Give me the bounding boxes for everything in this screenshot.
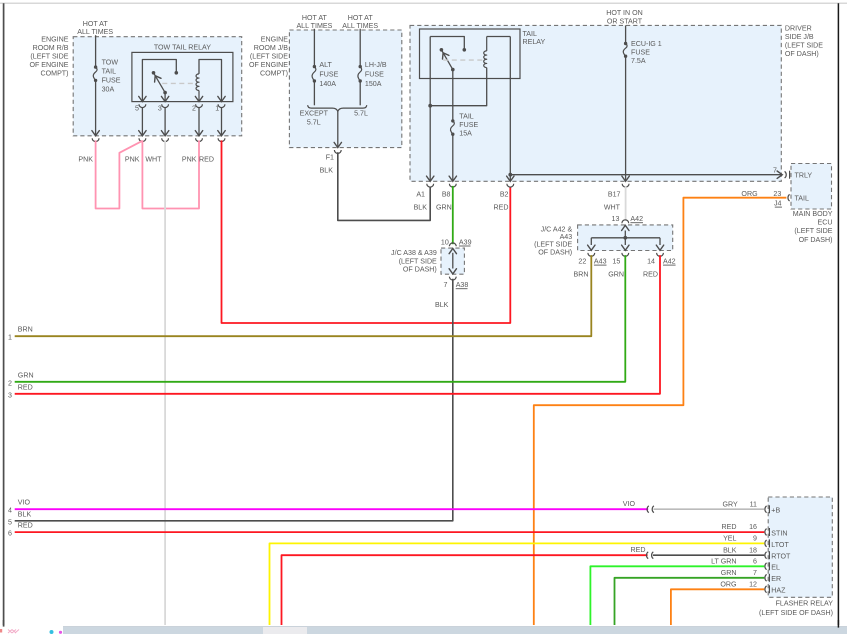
wire PNK relay pin 5 to pin 2 xyxy=(142,140,199,208)
svg-text:A42: A42 xyxy=(630,215,643,223)
svg-text:ENGINE: ENGINE xyxy=(261,35,288,43)
svg-text:ENGINE: ENGINE xyxy=(41,35,68,43)
svg-text:FUSE: FUSE xyxy=(631,48,650,56)
svg-text:1: 1 xyxy=(8,334,12,342)
svg-text:150A: 150A xyxy=(365,80,382,88)
svg-text:PNK: PNK xyxy=(78,156,93,164)
tow relay switch arm xyxy=(154,73,166,93)
connector B2 at J/B edge xyxy=(507,184,514,187)
svg-text:J4: J4 xyxy=(774,199,782,207)
svg-text:FUSE: FUSE xyxy=(365,71,384,79)
svg-text:RTOT: RTOT xyxy=(771,553,791,561)
wire GRY to +B xyxy=(654,508,765,510)
svg-text:LH-J/B: LH-J/B xyxy=(365,61,387,69)
wire GRN B8 to junction connector A39 xyxy=(452,186,454,244)
fuse ALT FUSE 140A xyxy=(313,65,316,68)
svg-text:WHT: WHT xyxy=(145,156,162,164)
svg-text:TAIL: TAIL xyxy=(459,113,474,121)
svg-text:OF DASH): OF DASH) xyxy=(799,236,833,244)
svg-text:GRY: GRY xyxy=(722,501,738,509)
svg-text:OF DASH): OF DASH) xyxy=(403,266,437,274)
svg-text:TAIL: TAIL xyxy=(102,68,117,76)
svg-text:15: 15 xyxy=(612,257,620,265)
wire RED pin 14 to left edge (wire 3) xyxy=(15,255,660,394)
tow relay pin 3 xyxy=(161,96,168,101)
svg-text:YEL: YEL xyxy=(723,535,736,543)
frame line ends over strip xyxy=(3,620,5,627)
connector at R/B edge pin 5 xyxy=(139,138,146,141)
tow relay coil xyxy=(198,91,200,102)
wire GRN to ER xyxy=(615,578,765,628)
svg-text:ER: ER xyxy=(771,575,781,583)
connector 13 A42 (top) xyxy=(622,220,629,223)
svg-text:B8: B8 xyxy=(442,190,451,198)
svg-text:RED: RED xyxy=(18,522,33,530)
wire RED to RTOT connector xyxy=(282,555,648,627)
junction dot on bus xyxy=(623,236,627,240)
svg-text:BLK: BLK xyxy=(320,167,334,175)
connector 14 A42 xyxy=(657,253,664,256)
wire ALT FUSE output to brace xyxy=(313,81,315,105)
svg-text:11: 11 xyxy=(750,501,757,509)
svg-text:DRIVER: DRIVER xyxy=(785,24,812,32)
svg-text:A43: A43 xyxy=(594,257,607,265)
junction on A1 line xyxy=(428,104,432,108)
svg-text:ROOM R/B: ROOM R/B xyxy=(33,44,69,52)
svg-text:VIO: VIO xyxy=(18,499,31,507)
svg-text:22: 22 xyxy=(578,257,586,265)
svg-text:13: 13 xyxy=(612,215,620,223)
bus bar inside J/C xyxy=(591,237,660,239)
tail relay fixed contact xyxy=(463,48,467,52)
tow relay pin 2 xyxy=(195,96,202,101)
junction connector J/C A38 and A39 box xyxy=(441,248,464,274)
wire ORG MAIN BODY ECU TAIL to hazard ORG vertical xyxy=(534,198,787,628)
fuse TOW TAIL FUSE 30A xyxy=(94,65,97,68)
frame top border line xyxy=(0,2,847,4)
svg-text:GRN: GRN xyxy=(608,271,624,279)
tail relay coil xyxy=(486,37,488,51)
wire RED relay pin 1 to tail relay B2 xyxy=(222,140,511,323)
pin STIN connector xyxy=(765,529,767,536)
tow relay pin 5 xyxy=(139,96,146,101)
relay TAIL RELAY box xyxy=(420,29,521,79)
wire brace output F1 xyxy=(337,111,339,147)
connector 10 A39 (top) xyxy=(449,243,456,246)
svg-text:15A: 15A xyxy=(459,130,472,138)
svg-text:TOW TAIL RELAY: TOW TAIL RELAY xyxy=(154,43,211,51)
junction connector J/C A42 and A43 box xyxy=(578,225,673,251)
wire coil top to B2 line xyxy=(487,36,511,38)
svg-text:1: 1 xyxy=(215,105,219,113)
svg-text:OF ENGINE: OF ENGINE xyxy=(29,61,68,69)
svg-text:ECU-IG 1: ECU-IG 1 xyxy=(631,40,662,48)
svg-text:WHT: WHT xyxy=(604,204,621,212)
wire YEL to LTOT xyxy=(270,543,765,627)
svg-text:TOW: TOW xyxy=(102,58,119,66)
svg-text:B17: B17 xyxy=(608,190,621,198)
svg-text:LT GRN: LT GRN xyxy=(711,558,736,566)
svg-text:16: 16 xyxy=(749,523,757,531)
pin TRLY tick xyxy=(789,171,791,179)
svg-text:30A: 30A xyxy=(102,86,115,94)
svg-text:OF ENGINE: OF ENGINE xyxy=(249,61,288,69)
svg-text:OR START: OR START xyxy=(607,17,643,25)
connector B17 at J/B edge xyxy=(622,184,629,187)
svg-text:COMPT): COMPT) xyxy=(260,69,288,77)
svg-text:5.7L: 5.7L xyxy=(307,118,321,126)
junction block ENGINE ROOM R/B box xyxy=(73,37,242,136)
wire ECU-IG 1 FUSE output to B17 xyxy=(625,56,627,181)
branch to pin 22 A43 xyxy=(590,238,592,245)
svg-text:RED: RED xyxy=(722,523,737,531)
wire WHT B17 to junction connector A42 xyxy=(625,186,627,221)
pin RTOT connector xyxy=(765,552,767,559)
svg-text:TRLY: TRLY xyxy=(795,171,813,179)
wire GRN pin 15 to left edge (wire 2) xyxy=(15,255,626,382)
svg-text:FUSE: FUSE xyxy=(319,71,338,79)
svg-text:RED: RED xyxy=(494,204,509,212)
svg-text:FUSE: FUSE xyxy=(459,121,478,129)
svg-text:6: 6 xyxy=(8,530,12,538)
wire TAIL FUSE output to B8 xyxy=(452,134,454,181)
svg-text:ROOM J/B: ROOM J/B xyxy=(254,44,289,52)
svg-text:BLK: BLK xyxy=(414,204,428,212)
tow relay mechanical link (dashed) xyxy=(162,82,195,84)
svg-text:BLK: BLK xyxy=(435,301,449,309)
svg-text:4: 4 xyxy=(8,507,12,515)
wire hot feed into ECU-IG 1 FUSE xyxy=(625,25,627,43)
wire LT GRN to EL xyxy=(590,566,764,627)
wire BLK F1 to tail relay A1 xyxy=(338,152,430,220)
wire RED from left edge to STIN (wire 6) xyxy=(15,531,765,533)
svg-text:EL: EL xyxy=(771,564,780,572)
svg-text:(LEFT SIDE: (LEFT SIDE xyxy=(30,52,68,60)
svg-text:(LEFT SIDE: (LEFT SIDE xyxy=(794,227,832,235)
ECU MAIN BODY ECU box xyxy=(791,164,832,210)
tow relay pin 1 xyxy=(218,96,225,101)
svg-text:7: 7 xyxy=(444,281,448,289)
svg-text:BLK: BLK xyxy=(723,546,737,554)
svg-text:10: 10 xyxy=(441,238,449,246)
relay TOW TAIL RELAY box xyxy=(132,52,233,101)
svg-text:GRN: GRN xyxy=(436,204,452,212)
relay FLASHER RELAY box xyxy=(768,497,832,597)
svg-text:RELAY: RELAY xyxy=(523,38,546,46)
wire pin 7 to MAIN BODY ECU TRLY xyxy=(510,174,782,176)
connector at R/B edge (fuse output) xyxy=(92,138,99,141)
svg-text:BRN: BRN xyxy=(574,271,589,279)
svg-text:ALT: ALT xyxy=(319,61,332,69)
pin EL connector xyxy=(765,563,767,570)
frame left border line xyxy=(3,3,5,628)
tail relay arm terminal xyxy=(451,68,455,72)
svg-text:12: 12 xyxy=(749,581,757,589)
connector A1 at J/B edge xyxy=(427,184,434,187)
svg-text:(LEFT SIDE OF DASH): (LEFT SIDE OF DASH) xyxy=(759,609,833,617)
svg-text:9: 9 xyxy=(753,535,757,543)
fuse ECU-IG 1 FUSE 7.5A xyxy=(624,42,627,45)
svg-text:140A: 140A xyxy=(319,80,336,88)
svg-text:GRN: GRN xyxy=(721,569,737,577)
svg-text:SIDE J/B: SIDE J/B xyxy=(785,33,814,41)
svg-text:+B: +B xyxy=(771,507,780,515)
frame right border line xyxy=(837,3,839,628)
junction on B2 line (pin 7 tap) xyxy=(508,173,512,177)
connector at R/B edge pin 3 xyxy=(162,138,169,141)
wire BLK to RTOT xyxy=(653,554,764,556)
connector at R/B edge pin 1 xyxy=(218,138,225,141)
svg-text:7.5A: 7.5A xyxy=(631,57,646,65)
svg-text:14: 14 xyxy=(647,257,655,265)
wire coil bottom to A1 ground line xyxy=(430,68,487,106)
junction pass-through arrow A39/A38 xyxy=(452,253,454,269)
svg-text:GRN: GRN xyxy=(18,371,34,379)
wire hot feed into TOW TAIL FUSE xyxy=(95,35,97,67)
junction block DRIVER SIDE J/B box xyxy=(410,25,781,181)
svg-text:ORG: ORG xyxy=(720,581,736,589)
pin TAIL connector (female) xyxy=(788,194,790,201)
svg-text:ALL TIMES: ALL TIMES xyxy=(77,28,113,36)
wire A1 (switch and coil ground) xyxy=(429,37,431,176)
wire LH-J/B FUSE output to brace xyxy=(359,81,361,105)
svg-text:18: 18 xyxy=(749,546,757,554)
svg-text:ECU: ECU xyxy=(818,219,833,227)
inline connector VIO-GRY xyxy=(647,506,649,513)
svg-text:5: 5 xyxy=(8,518,12,526)
fuse TAIL FUSE 15A xyxy=(451,119,454,122)
tail relay switch common bar xyxy=(430,37,464,50)
connector F1 at J/B edge xyxy=(334,150,341,153)
svg-text:A1: A1 xyxy=(416,190,425,198)
svg-text:J/C A38 & A39: J/C A38 & A39 xyxy=(391,249,437,257)
wire WHT from relay pin 3 down page xyxy=(164,140,166,627)
svg-text:F1: F1 xyxy=(326,154,334,162)
svg-text:MAIN BODY: MAIN BODY xyxy=(793,210,833,218)
svg-text:HOT IN ON: HOT IN ON xyxy=(606,9,643,17)
branch to pin 15 xyxy=(624,238,626,245)
tow relay switch common bar xyxy=(142,60,176,102)
wire BLK A38 to left edge (wire 5) xyxy=(15,279,453,521)
wire PNK fuse output to relay pin 5 xyxy=(96,140,143,208)
wire BRN pin 22 to left edge (wire 1) xyxy=(15,255,592,336)
svg-text:TAIL: TAIL xyxy=(795,194,810,202)
brace joining fuse outputs xyxy=(308,105,367,111)
connector 15 xyxy=(622,253,629,256)
svg-text:FLASHER RELAY: FLASHER RELAY xyxy=(776,599,834,607)
svg-text:PNK: PNK xyxy=(182,156,197,164)
svg-text:ORG: ORG xyxy=(741,190,757,198)
svg-text:7: 7 xyxy=(773,166,777,174)
fuse LH-J/B FUSE 150A xyxy=(359,65,362,68)
pin HAZ connector xyxy=(765,586,767,593)
svg-text:5.7L: 5.7L xyxy=(354,110,368,118)
svg-text:OF DASH): OF DASH) xyxy=(538,248,572,256)
connector 7 A38 (bottom) xyxy=(449,277,456,280)
tail relay mechanical link (dashed) xyxy=(443,59,483,61)
svg-text:7: 7 xyxy=(753,569,757,577)
svg-text:2: 2 xyxy=(192,105,196,113)
svg-text:RED: RED xyxy=(18,383,33,391)
svg-text:RED: RED xyxy=(631,546,646,554)
svg-text:VIO: VIO xyxy=(623,500,636,508)
pin LTOT connector xyxy=(765,540,767,547)
svg-text:LTOT: LTOT xyxy=(771,541,789,549)
svg-text:B2: B2 xyxy=(500,190,509,198)
inline connector RED-BLK xyxy=(646,552,648,559)
wire TOW TAIL FUSE output xyxy=(95,80,97,135)
tow relay arm terminal xyxy=(163,91,167,95)
svg-text:PNK: PNK xyxy=(125,156,140,164)
svg-text:A38: A38 xyxy=(456,281,469,289)
svg-text:2: 2 xyxy=(8,379,12,387)
tail relay switch arm xyxy=(441,50,452,70)
svg-text:RED: RED xyxy=(199,156,214,164)
wire B2 vertical (coil feed) xyxy=(509,37,511,181)
connector pin 7 (female) xyxy=(785,171,787,178)
svg-text:COMPT): COMPT) xyxy=(41,69,69,77)
tail relay pivot contact xyxy=(440,48,444,52)
svg-text:HAZ: HAZ xyxy=(771,587,786,595)
svg-text:6: 6 xyxy=(753,558,757,566)
svg-text:HOT AT: HOT AT xyxy=(83,20,109,28)
junction block ENGINE ROOM J/B box xyxy=(289,30,401,148)
tow relay pivot contact xyxy=(152,71,156,75)
svg-text:23: 23 xyxy=(773,190,781,198)
wire hot feed into LH-J/B FUSE xyxy=(359,29,361,67)
svg-text:OF DASH): OF DASH) xyxy=(785,50,819,58)
branch to pin 14 A42 xyxy=(659,238,661,245)
svg-text:(LEFT SIDE: (LEFT SIDE xyxy=(399,257,437,265)
svg-text:5: 5 xyxy=(135,105,139,113)
svg-text:FUSE: FUSE xyxy=(102,77,121,85)
svg-text:BRN: BRN xyxy=(18,326,33,334)
wire VIO from left edge (wire 4) xyxy=(15,508,649,510)
connector 22 A43 xyxy=(588,253,595,256)
wire A42 entry arrow xyxy=(624,231,626,238)
tow relay fixed contact xyxy=(175,71,179,75)
pin ER connector xyxy=(765,574,767,581)
svg-text:RED: RED xyxy=(643,271,658,279)
svg-text:(LEFT SIDE: (LEFT SIDE xyxy=(785,41,823,49)
wire hot feed into ALT FUSE xyxy=(313,29,315,67)
svg-text:TAIL: TAIL xyxy=(523,30,538,38)
wire ORG to HAZ xyxy=(671,589,764,627)
svg-text:STIN: STIN xyxy=(771,529,787,537)
svg-text:3: 3 xyxy=(8,391,12,399)
scrollbar decorations xyxy=(8,630,19,634)
svg-text:3: 3 xyxy=(158,105,162,113)
bottom scrollbar strip xyxy=(0,625,847,634)
svg-text:A39: A39 xyxy=(459,238,472,246)
svg-text:(LEFT SIDE: (LEFT SIDE xyxy=(250,52,288,60)
svg-text:A42: A42 xyxy=(663,257,676,265)
connector at R/B edge pin 2 xyxy=(196,138,203,141)
connector B8 at J/B edge xyxy=(449,184,456,187)
svg-text:HOT AT: HOT AT xyxy=(348,14,374,22)
svg-text:HOT AT: HOT AT xyxy=(302,14,328,22)
pin +B connector xyxy=(765,506,767,513)
svg-text:EXCEPT: EXCEPT xyxy=(300,110,329,118)
svg-text:BLK: BLK xyxy=(18,510,32,518)
wire switch arm to TAIL FUSE xyxy=(452,70,454,121)
